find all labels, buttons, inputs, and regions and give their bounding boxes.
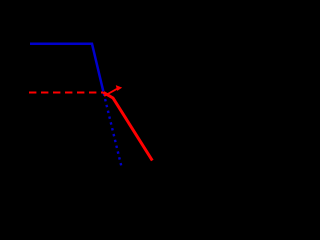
red solid curve (jump then decline) [104, 92, 153, 160]
red arrow head [116, 85, 122, 91]
red arrow shaft [104, 89, 117, 96]
red dashed level line [29, 92, 104, 94]
blue solid curve (level then steep fall) [30, 44, 103, 92]
blue dotted continuation [104, 93, 122, 166]
